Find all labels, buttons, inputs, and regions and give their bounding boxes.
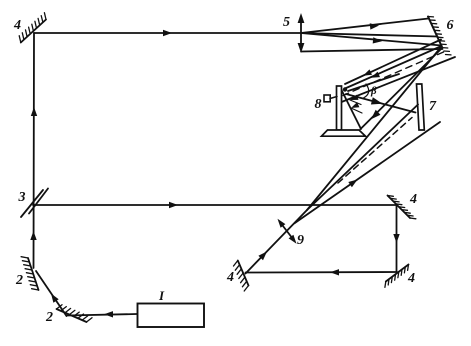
svg-text:4: 4 <box>226 270 234 285</box>
svg-text:4: 4 <box>407 271 415 286</box>
svg-text:3: 3 <box>18 190 26 205</box>
svg-text:8: 8 <box>315 97 322 112</box>
svg-text:β: β <box>370 85 377 97</box>
svg-text:2: 2 <box>15 273 23 288</box>
svg-text:6: 6 <box>447 18 454 33</box>
svg-text:9: 9 <box>297 233 304 248</box>
svg-text:2: 2 <box>45 310 53 325</box>
svg-text:I: I <box>158 288 165 303</box>
svg-text:7: 7 <box>429 99 437 114</box>
svg-text:4: 4 <box>409 192 417 207</box>
svg-text:4: 4 <box>13 18 21 33</box>
svg-text:5: 5 <box>283 15 290 30</box>
